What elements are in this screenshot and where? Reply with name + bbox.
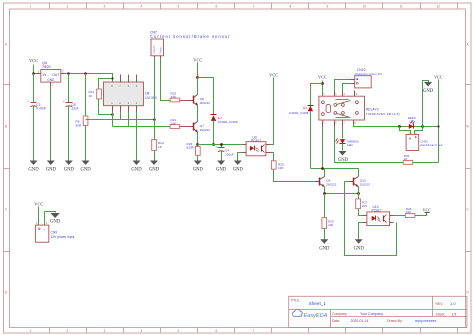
junction R14 bottom / U8 pin1 bbox=[111, 113, 114, 116]
svg-text:1N4001_C2458: 1N4001_C2458 bbox=[289, 111, 309, 115]
svg-text:6: 6 bbox=[216, 329, 218, 333]
svg-text:7: 7 bbox=[253, 329, 255, 333]
ground under R8 bbox=[81, 161, 92, 173]
svg-text:shutdown circuit I/O: shutdown circuit I/O bbox=[355, 72, 383, 76]
resistor R22 bbox=[170, 92, 189, 102]
wire emitter node to U9 bbox=[198, 144, 243, 146]
junction LED row left bbox=[398, 125, 401, 128]
svg-text:GND: GND bbox=[64, 168, 75, 173]
svg-text:GND: GND bbox=[233, 168, 244, 173]
junction Q9 emitter bbox=[323, 192, 326, 195]
ground under R24 bbox=[149, 161, 160, 173]
svg-text:4: 4 bbox=[141, 329, 143, 333]
power VCC7 bbox=[422, 208, 431, 213]
svg-text:6: 6 bbox=[216, 5, 218, 9]
wire coil node row bbox=[311, 127, 359, 169]
svg-text:reply.meweek: reply.meweek bbox=[415, 319, 437, 323]
svg-text:VCC: VCC bbox=[318, 75, 327, 80]
wire LED row to CN33 pin2 bbox=[415, 127, 423, 135]
svg-text:9: 9 bbox=[327, 5, 329, 9]
wire CN7 pin1 down bbox=[154, 59, 156, 140]
diode D7 bbox=[211, 115, 238, 145]
ground under U8 pin4 bbox=[131, 161, 142, 173]
wire U8 pin2 to R8 row bbox=[86, 112, 155, 120]
svg-text:+: + bbox=[44, 227, 46, 231]
junction LED row far right bbox=[437, 125, 439, 127]
svg-text:8: 8 bbox=[290, 5, 292, 9]
diode D6 bbox=[289, 84, 323, 169]
svg-text:T90SB-5VDC-SB-L1(5): T90SB-5VDC-SB-L1(5) bbox=[366, 112, 400, 116]
svg-text:220: 220 bbox=[328, 223, 333, 227]
svg-text:VCC: VCC bbox=[269, 73, 278, 78]
svg-text:85R: 85R bbox=[76, 123, 82, 127]
svg-text:Sheet:: Sheet: bbox=[436, 313, 446, 317]
resistor R25 bbox=[271, 161, 284, 170]
power VCC4 (CN9) bbox=[34, 202, 43, 226]
capacitor C5 bbox=[63, 74, 79, 161]
junction C5 tap bbox=[67, 72, 70, 75]
svg-text:7: 7 bbox=[253, 5, 255, 9]
svg-text:10K: 10K bbox=[171, 122, 177, 126]
svg-text:11: 11 bbox=[400, 5, 404, 9]
svg-text:D6: D6 bbox=[303, 106, 307, 110]
junction coil node bbox=[321, 167, 324, 170]
wire Q7 emitter down bbox=[197, 133, 199, 145]
wire CN10 pin2 to relay bbox=[343, 84, 351, 91]
svg-text:CN9: CN9 bbox=[51, 231, 58, 235]
wire Q9 emitter node bbox=[325, 187, 359, 194]
power VCC5 (relay) bbox=[318, 75, 327, 97]
svg-text:GND: GND bbox=[81, 168, 92, 173]
svg-text:Date:: Date: bbox=[332, 319, 340, 323]
wire U8 pin4 to ground bbox=[136, 112, 138, 161]
junction VCC2 node bbox=[196, 76, 199, 79]
junction Q10 emitter bbox=[357, 192, 360, 195]
ground under C3 bbox=[28, 161, 39, 173]
capacitor C4 bbox=[215, 145, 234, 161]
junction LED row right bbox=[421, 125, 424, 128]
ground under C5 bbox=[64, 161, 75, 173]
junction D7 bottom bbox=[212, 143, 215, 146]
svg-text:LED: LED bbox=[347, 143, 353, 147]
ground under R23 bbox=[193, 161, 204, 173]
svg-text:GND: GND bbox=[47, 78, 55, 82]
svg-text:PC817: PC817 bbox=[251, 139, 261, 143]
svg-text:820R: 820R bbox=[187, 146, 195, 150]
ground under 7805 bbox=[46, 161, 57, 173]
wire U9 pin3 to R25 bbox=[271, 153, 274, 161]
svg-text:GND: GND bbox=[46, 168, 57, 173]
svg-text:0.47uF: 0.47uF bbox=[36, 107, 46, 111]
power VCC6 bbox=[434, 75, 443, 163]
wire LED row to CN33 pin1 bbox=[400, 127, 411, 135]
svg-text:10K: 10K bbox=[171, 95, 177, 99]
wire U10 pin2 to ground bbox=[359, 223, 363, 240]
svg-text:1.0: 1.0 bbox=[450, 301, 456, 306]
svg-text:LED: LED bbox=[409, 120, 415, 124]
svg-text:IN: IN bbox=[43, 73, 47, 77]
junction at VCC1 bbox=[32, 72, 35, 75]
wire U9 pin2 to ground bbox=[238, 153, 243, 161]
svg-text:3: 3 bbox=[104, 329, 106, 333]
transistor Q8 bbox=[190, 95, 211, 106]
svg-text:4: 4 bbox=[141, 5, 143, 9]
wire LED row up to ground bbox=[423, 81, 429, 127]
resistor R14 bbox=[89, 79, 113, 115]
svg-text:+: + bbox=[28, 99, 30, 103]
svg-text:1: 1 bbox=[30, 329, 32, 333]
junction C4 top bbox=[220, 143, 223, 146]
capacitor C3 bbox=[28, 74, 47, 161]
svg-text:GND: GND bbox=[131, 168, 142, 173]
resistor R20 bbox=[322, 194, 334, 240]
resistor R8 bbox=[76, 74, 88, 161]
svg-text:7805: 7805 bbox=[42, 65, 50, 69]
svg-text:REV:: REV: bbox=[436, 302, 444, 306]
resistor R21 bbox=[170, 118, 189, 128]
svg-text:GND: GND bbox=[149, 168, 160, 173]
connector CN9 bbox=[35, 221, 74, 242]
connector CN33 bbox=[406, 132, 443, 151]
relay RELAY3 bbox=[319, 91, 400, 127]
title block bbox=[289, 296, 467, 327]
optocoupler U9 PC817 bbox=[243, 135, 271, 156]
svg-text:Brake: Brake bbox=[160, 47, 163, 54]
wire CN10 pin1 to relay bbox=[335, 80, 351, 91]
wire VCC2 to Q8 collector bbox=[197, 78, 199, 95]
junction VCC5/D6 bbox=[321, 82, 324, 85]
svg-text:Current: Current bbox=[153, 45, 156, 53]
svg-text:1N4001_C2458: 1N4001_C2458 bbox=[218, 120, 238, 124]
svg-text:GND: GND bbox=[216, 168, 227, 173]
svg-text:2: 2 bbox=[67, 5, 69, 9]
wire relay pin5 to R29 row bbox=[335, 127, 404, 163]
junction Q7 emitter node bbox=[196, 143, 199, 146]
svg-text:22uF: 22uF bbox=[72, 107, 79, 111]
wire R25 to Q9 base bbox=[274, 170, 316, 182]
svg-text:+: + bbox=[215, 145, 217, 149]
svg-text:12: 12 bbox=[437, 5, 441, 9]
svg-text:Current sensor/Brake sensor: Current sensor/Brake sensor bbox=[150, 34, 231, 39]
svg-text:OUT: OUT bbox=[52, 73, 59, 77]
svg-text:2020-01-14: 2020-01-14 bbox=[351, 319, 369, 323]
svg-text:dashboard led: dashboard led bbox=[420, 143, 442, 147]
svg-text:Your Company: Your Company bbox=[360, 312, 383, 316]
svg-text:1K: 1K bbox=[404, 157, 408, 161]
junction R14 top bbox=[111, 77, 113, 79]
svg-text:VCC: VCC bbox=[29, 58, 38, 63]
svg-text:10K: 10K bbox=[406, 210, 411, 214]
junction R8 tap bbox=[84, 72, 87, 75]
wire U10 pin4 to R28 bbox=[394, 215, 406, 217]
transistor Q9 bbox=[316, 169, 337, 188]
svg-text:10K: 10K bbox=[278, 166, 284, 170]
svg-text:B: B bbox=[5, 125, 7, 129]
wire U8 pin1/pin3 to R21 row bbox=[113, 112, 171, 127]
svg-text:VCC: VCC bbox=[434, 75, 443, 80]
svg-text:Sheet_1: Sheet_1 bbox=[309, 301, 327, 306]
svg-text:220: 220 bbox=[362, 204, 367, 208]
svg-text:GND: GND bbox=[319, 246, 330, 251]
svg-text:2N2222: 2N2222 bbox=[360, 182, 371, 186]
wire Q10 base loop bbox=[345, 182, 397, 256]
resistor R28 bbox=[405, 207, 426, 218]
svg-text:3: 3 bbox=[104, 5, 106, 9]
ground near CN9 bbox=[50, 213, 61, 224]
svg-text:5: 5 bbox=[178, 5, 180, 9]
ground top right bbox=[423, 82, 434, 94]
svg-text:GND: GND bbox=[50, 219, 61, 224]
svg-text:1/1: 1/1 bbox=[452, 313, 457, 317]
svg-text:1: 1 bbox=[30, 5, 32, 9]
svg-text:VCC: VCC bbox=[34, 202, 43, 207]
regulator Q6 7805 bbox=[37, 61, 65, 87]
svg-text:PC817: PC817 bbox=[372, 209, 382, 213]
svg-text:Drawn By:: Drawn By: bbox=[387, 319, 403, 323]
svg-text:VCC: VCC bbox=[422, 208, 431, 213]
svg-text:GND: GND bbox=[423, 89, 434, 94]
svg-text:2N2222: 2N2222 bbox=[200, 128, 211, 132]
svg-text:2N2222: 2N2222 bbox=[326, 182, 337, 186]
svg-text:+: + bbox=[63, 99, 65, 103]
transistor Q10 bbox=[350, 169, 371, 194]
resistor R23 bbox=[187, 142, 201, 161]
connector CN10 bbox=[351, 68, 383, 88]
wire CN7 pin2 to R22 bbox=[161, 59, 171, 101]
svg-text:10: 10 bbox=[363, 5, 367, 9]
power VCC1 bbox=[29, 58, 38, 74]
wire VCC2 to D7 bbox=[198, 78, 214, 115]
optocoupler U10 PC817 bbox=[363, 205, 394, 226]
svg-text:12V power input: 12V power input bbox=[51, 235, 75, 239]
junction H2 / CN7 pin1 bbox=[153, 118, 156, 121]
wire CN9 pin2 to ground bbox=[45, 212, 56, 226]
wire Q8 emitter to Q7 collector bbox=[197, 106, 199, 122]
wire 7805 gnd bbox=[50, 86, 52, 161]
svg-text:TITLE:: TITLE: bbox=[291, 299, 301, 303]
svg-text:GND: GND bbox=[193, 168, 204, 173]
ground under GREEN2 bbox=[338, 151, 349, 163]
ground under U10 bbox=[354, 239, 365, 251]
ground under U9 bbox=[233, 161, 244, 173]
svg-text:GND: GND bbox=[354, 246, 365, 251]
LED RED2 bbox=[408, 116, 416, 129]
power VCC3 bbox=[269, 73, 278, 145]
ground under R20 bbox=[319, 239, 330, 251]
svg-text:GND: GND bbox=[28, 168, 39, 173]
svg-text:2N2222: 2N2222 bbox=[200, 101, 211, 105]
resistor R24 bbox=[152, 140, 164, 161]
svg-text:U8: U8 bbox=[145, 92, 150, 96]
resistor R29 bbox=[403, 154, 438, 165]
svg-text:5: 5 bbox=[178, 329, 180, 333]
svg-text:RELAY3: RELAY3 bbox=[366, 108, 379, 112]
svg-text:B: B bbox=[467, 125, 469, 129]
svg-text:Company:: Company: bbox=[332, 312, 348, 316]
power VCC2 bbox=[193, 58, 202, 78]
ground under C4 bbox=[216, 161, 227, 173]
wire VCC rail bbox=[34, 74, 113, 83]
transistor Q7 bbox=[190, 122, 211, 133]
svg-text:2: 2 bbox=[67, 329, 69, 333]
resistor R27 bbox=[356, 194, 368, 216]
svg-text:VCC: VCC bbox=[193, 58, 202, 63]
svg-text:EasyEDA: EasyEDA bbox=[304, 313, 328, 319]
LED GREEN2 bbox=[336, 127, 360, 151]
connector CN7 bbox=[150, 31, 231, 59]
op-amp U8 LM393 bbox=[104, 75, 157, 112]
svg-text:220uF: 220uF bbox=[225, 152, 234, 156]
wire relay contact to LED row bbox=[354, 125, 439, 127]
